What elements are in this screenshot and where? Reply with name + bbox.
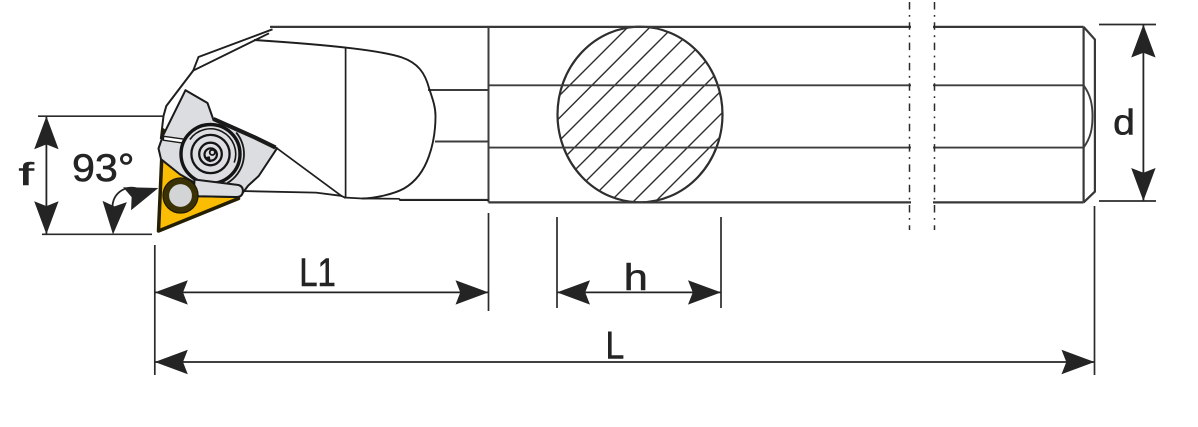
insert hole ring <box>166 181 194 209</box>
break line left (dash-dot) <box>909 2 911 230</box>
arrow angle to insert edge <box>123 176 162 210</box>
bar top edge <box>270 26 1084 28</box>
section circle (hatched cross-section of bar) <box>470 0 942 230</box>
bar lower facet line <box>489 147 1084 149</box>
extension line d bottom <box>1099 200 1156 202</box>
break line right (dash-dot) <box>934 2 936 230</box>
clamp front foot <box>194 180 243 198</box>
extension line L1/L left <box>154 245 156 375</box>
extension line d top <box>1099 24 1156 26</box>
dimension line L1 <box>155 291 489 293</box>
bar end dome curve <box>1084 85 1093 147</box>
arrow h right <box>688 280 721 304</box>
dimension line L <box>155 361 1095 363</box>
arrow f down <box>34 201 58 234</box>
head bottom edge <box>240 191 346 198</box>
bar upper facet line <box>489 84 1084 86</box>
extension line h right <box>720 217 722 308</box>
shank bottom step line <box>399 199 489 201</box>
arrow L right <box>1062 350 1095 374</box>
torx recess circle <box>205 148 217 160</box>
head diagonal facet line <box>277 148 342 196</box>
extension line f bottom <box>42 233 152 235</box>
dimension line d <box>1142 25 1144 202</box>
svg-text:93°: 93° <box>72 147 134 189</box>
arrow d down <box>1131 168 1155 201</box>
screw head circle <box>191 135 229 173</box>
insert (yellow triangular cutting insert) <box>159 130 239 231</box>
head top chamfer sliver <box>193 29 272 70</box>
torx recess shadow <box>204 156 211 162</box>
arrow L left <box>155 350 188 374</box>
clamp screw washer outer ring <box>181 125 240 184</box>
clamp body silhouette <box>159 90 278 197</box>
clamp wing gap sliver <box>163 136 198 145</box>
shank facet lines left of bar joint <box>428 90 489 142</box>
bar right end with chamfers <box>1084 27 1095 203</box>
arrow d up <box>1131 25 1155 58</box>
dimension line h <box>557 291 721 293</box>
arrow h left <box>557 280 590 304</box>
head lobe curve <box>254 40 436 199</box>
arrow f up <box>34 116 58 149</box>
svg-text:f: f <box>19 156 35 192</box>
svg-text:L: L <box>606 323 625 367</box>
dimension line f <box>45 116 47 234</box>
head vertical facet line <box>345 48 347 199</box>
clamp counterbore arc <box>227 133 244 184</box>
svg-text:h: h <box>624 258 648 298</box>
svg-text:d: d <box>1113 103 1135 143</box>
extension line L1 right <box>488 213 490 311</box>
arrow L1 right <box>456 280 489 304</box>
head bottom steps <box>344 198 489 201</box>
bar bottom edge <box>489 201 1084 203</box>
torx lobe circle <box>210 150 215 155</box>
extension line h left <box>556 217 558 308</box>
bar joint vertical line <box>488 27 490 203</box>
insert hole outer rim <box>163 178 198 213</box>
arrow angle down <box>101 201 127 235</box>
clamp shadow edge <box>214 119 276 148</box>
screw socket circle <box>199 143 222 166</box>
extension line L right <box>1094 206 1096 375</box>
extension line f top <box>38 115 163 117</box>
washer inner rim arc <box>190 129 236 163</box>
head left edge <box>161 71 193 139</box>
angle arc 93 degrees <box>112 188 137 208</box>
svg-text:L1: L1 <box>299 250 336 295</box>
arrow L1 left <box>155 280 188 304</box>
